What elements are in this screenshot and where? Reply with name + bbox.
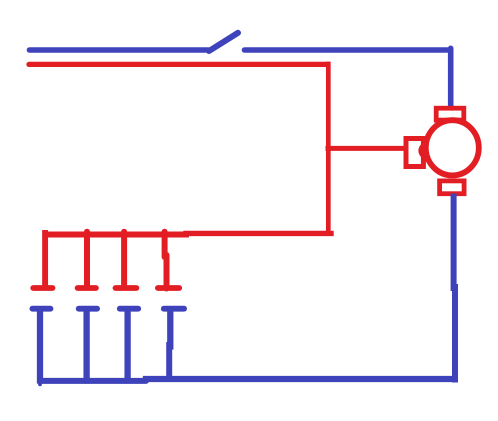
capacitor C1 red lead [42,233,48,285]
wire red top segment [29,62,328,67]
node dot on bus at C3 [121,232,127,285]
node dot on bus at C2 [84,232,90,285]
capacitor C1 blue lead [37,311,43,381]
capacitor C4 blue lead lower [166,345,172,379]
capacitor C1 bottom plate [32,306,50,312]
wire blue top-right segment [245,47,451,53]
wire red capacitor bus left part [45,232,186,238]
capacitor C4 blue lead upper [167,311,173,347]
capacitor C1 [32,233,52,381]
wire blue right vertical upper [448,48,454,107]
capacitor C3 top plate [116,285,137,291]
switch S1 blade [209,33,238,51]
motor M1 left brush terminal [406,139,423,167]
capacitor C3 blue lead [124,311,130,381]
wire blue below motor lower part [452,287,458,380]
node dot on bus at C4 [162,232,168,257]
capacitor C4 top plate [158,285,179,291]
motor M1 body circle [426,120,479,175]
capacitor C3 [116,232,139,381]
capacitor C4 red lead lower [164,255,170,289]
capacitor C2 blue lead [83,311,89,381]
wire blue below motor upper part [451,197,457,289]
capacitor C1 top plate [33,285,52,291]
capacitor C4 [158,232,184,379]
capacitor C3 bottom plate [120,306,138,312]
wire red branch to motor [328,146,405,151]
wire red right vertical [326,64,331,233]
wire red capacitor bus right part [186,231,331,236]
wire blue bottom bus left part [41,378,146,384]
motor M1 left terminal inner arc bump [420,146,422,155]
motor M1 top terminal [436,108,464,120]
capacitor C2 [78,232,98,381]
wire blue top-left segment [30,47,209,53]
wire blue bottom bus left end cap [38,383,42,387]
capacitor C2 top plate [78,285,96,291]
capacitor C2 bottom plate [79,306,97,312]
wire blue bottom bus right part [146,376,454,382]
capacitor C4 bottom plate [164,306,184,312]
motor M1 [406,108,479,194]
motor M1 bottom terminal [440,181,465,194]
